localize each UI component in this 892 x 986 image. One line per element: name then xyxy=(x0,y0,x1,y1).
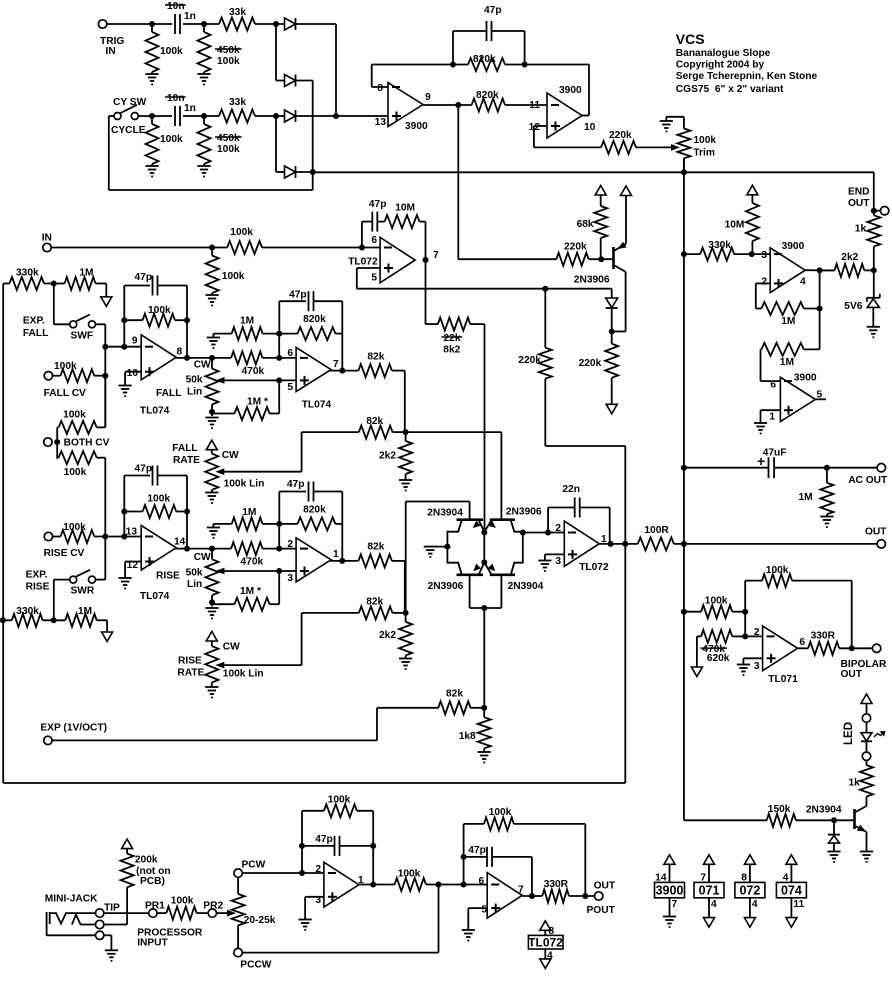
svg-text:RATE: RATE xyxy=(173,455,200,466)
svg-text:TL074: TL074 xyxy=(140,405,170,416)
svg-text:074: 074 xyxy=(781,883,802,897)
svg-text:470k: 470k xyxy=(241,557,264,568)
svg-text:100k: 100k xyxy=(693,135,716,146)
svg-text:3: 3 xyxy=(761,250,767,261)
svg-text:OUT: OUT xyxy=(865,527,887,538)
svg-text:6: 6 xyxy=(371,235,377,246)
svg-text:MINI-JACK: MINI-JACK xyxy=(45,894,98,905)
svg-text:EXP.: EXP. xyxy=(26,569,48,580)
svg-text:2N3906: 2N3906 xyxy=(506,507,542,518)
svg-text:5: 5 xyxy=(287,382,293,393)
svg-text:PCW: PCW xyxy=(242,860,266,871)
svg-text:FALL CV: FALL CV xyxy=(44,388,86,399)
svg-text:450k: 450k xyxy=(217,133,240,144)
svg-text:9: 9 xyxy=(132,336,138,347)
svg-text:10n: 10n xyxy=(167,1,185,12)
svg-text:1M: 1M xyxy=(781,316,795,327)
svg-text:1M: 1M xyxy=(780,357,794,368)
svg-text:RATE: RATE xyxy=(177,668,204,679)
svg-text:33k: 33k xyxy=(229,97,246,108)
svg-text:150k: 150k xyxy=(768,804,791,815)
svg-text:1M: 1M xyxy=(798,492,812,503)
svg-text:14: 14 xyxy=(655,872,667,883)
svg-text:100k: 100k xyxy=(54,361,77,372)
svg-text:8: 8 xyxy=(549,926,555,937)
svg-text:220k: 220k xyxy=(579,358,602,369)
svg-text:PCB): PCB) xyxy=(140,876,165,887)
svg-text:82k: 82k xyxy=(366,416,383,427)
svg-text:220k: 220k xyxy=(518,355,541,366)
svg-text:7: 7 xyxy=(672,899,678,910)
svg-text:330k: 330k xyxy=(16,267,39,278)
svg-text:CW: CW xyxy=(194,360,211,371)
svg-text:100k: 100k xyxy=(63,522,86,533)
svg-text:FALL: FALL xyxy=(156,388,181,399)
svg-text:1M: 1M xyxy=(78,606,92,617)
svg-text:CW: CW xyxy=(222,450,239,461)
svg-text:47p: 47p xyxy=(315,834,333,845)
svg-text:TL071: TL071 xyxy=(768,674,798,685)
svg-text:4: 4 xyxy=(783,872,789,883)
svg-text:CW: CW xyxy=(194,552,211,563)
svg-text:TL074: TL074 xyxy=(302,400,332,411)
svg-text:3: 3 xyxy=(555,556,561,567)
svg-text:100k: 100k xyxy=(63,409,86,420)
svg-text:100k Lin: 100k Lin xyxy=(223,668,264,679)
svg-text:1: 1 xyxy=(333,549,339,560)
svg-text:10: 10 xyxy=(584,122,596,133)
svg-text:SWF: SWF xyxy=(71,331,94,342)
svg-text:100k: 100k xyxy=(64,467,87,478)
svg-text:6: 6 xyxy=(479,876,485,887)
svg-text:3900: 3900 xyxy=(405,121,428,132)
svg-text:POUT: POUT xyxy=(587,905,616,916)
svg-text:2: 2 xyxy=(761,277,767,288)
svg-text:14: 14 xyxy=(174,537,186,548)
svg-text:5: 5 xyxy=(481,905,487,916)
svg-text:2N3906: 2N3906 xyxy=(428,581,464,592)
svg-text:100k: 100k xyxy=(398,869,421,880)
svg-text:3900: 3900 xyxy=(782,241,805,252)
svg-text:2k2: 2k2 xyxy=(379,630,396,641)
svg-text:6: 6 xyxy=(799,637,805,648)
svg-text:EXP (1V/OCT): EXP (1V/OCT) xyxy=(40,722,107,733)
svg-text:5: 5 xyxy=(371,273,377,284)
svg-text:RISE: RISE xyxy=(26,582,50,593)
svg-text:10: 10 xyxy=(127,368,139,379)
svg-text:IN: IN xyxy=(106,46,116,57)
svg-text:8: 8 xyxy=(741,872,747,883)
svg-text:CY SW: CY SW xyxy=(113,97,147,108)
svg-text:2: 2 xyxy=(287,539,293,550)
svg-text:INPUT: INPUT xyxy=(137,938,168,949)
svg-text:22n: 22n xyxy=(562,484,580,495)
svg-text:47p: 47p xyxy=(135,272,153,283)
svg-text:10M: 10M xyxy=(395,203,415,214)
svg-text:100k: 100k xyxy=(222,271,245,282)
svg-text:TIP: TIP xyxy=(104,902,120,913)
svg-text:RISE CV: RISE CV xyxy=(44,548,85,559)
svg-text:2N3904: 2N3904 xyxy=(508,581,544,592)
svg-text:FALL: FALL xyxy=(172,443,197,454)
svg-text:FALL: FALL xyxy=(23,328,48,339)
svg-text:1M: 1M xyxy=(240,316,254,327)
svg-text:1M *: 1M * xyxy=(247,396,268,407)
svg-text:330R: 330R xyxy=(811,630,836,641)
svg-text:450k: 450k xyxy=(217,45,240,56)
svg-text:LED: LED xyxy=(843,722,855,745)
svg-text:68k: 68k xyxy=(577,219,594,230)
svg-text:Copyright 2004 by: Copyright 2004 by xyxy=(676,60,765,71)
svg-text:50k: 50k xyxy=(186,568,203,579)
svg-text:END: END xyxy=(848,187,870,198)
svg-text:6: 6 xyxy=(287,348,293,359)
svg-text:072: 072 xyxy=(739,883,760,897)
svg-text:47p: 47p xyxy=(484,5,502,16)
svg-text:1k: 1k xyxy=(855,224,867,235)
svg-text:3: 3 xyxy=(287,573,293,584)
svg-text:47p: 47p xyxy=(289,290,307,301)
svg-text:100k: 100k xyxy=(160,46,183,57)
svg-text:3: 3 xyxy=(754,661,760,672)
svg-text:1n: 1n xyxy=(184,11,196,22)
svg-text:100k: 100k xyxy=(705,596,728,607)
svg-text:330R: 330R xyxy=(544,879,569,890)
svg-text:CGS75 6" x 2" variant: CGS75 6" x 2" variant xyxy=(676,84,784,95)
svg-text:47p: 47p xyxy=(135,464,153,475)
svg-text:TL072: TL072 xyxy=(528,935,563,949)
svg-text:7: 7 xyxy=(333,359,339,370)
svg-text:IN: IN xyxy=(42,232,52,243)
svg-text:Serge Tcherepnin, Ken Stone: Serge Tcherepnin, Ken Stone xyxy=(676,71,818,82)
svg-text:200k: 200k xyxy=(135,855,158,866)
svg-text:11: 11 xyxy=(529,100,540,111)
svg-text:VCS: VCS xyxy=(676,31,705,47)
svg-text:TL072: TL072 xyxy=(348,256,378,267)
svg-text:100k: 100k xyxy=(147,493,170,504)
svg-text:100k: 100k xyxy=(160,134,183,145)
svg-text:1n: 1n xyxy=(184,103,196,114)
svg-text:Lin: Lin xyxy=(187,387,202,398)
svg-text:620k: 620k xyxy=(707,653,730,664)
svg-text:11: 11 xyxy=(793,899,804,910)
svg-text:CW: CW xyxy=(223,641,240,652)
svg-text:33k: 33k xyxy=(229,7,246,18)
svg-text:RISE: RISE xyxy=(178,655,202,666)
svg-text:3900: 3900 xyxy=(656,883,684,897)
svg-text:470k: 470k xyxy=(242,366,265,377)
svg-text:82k: 82k xyxy=(366,597,383,608)
svg-text:47uF: 47uF xyxy=(763,448,787,459)
svg-text:100k: 100k xyxy=(766,565,789,576)
svg-text:2N3906: 2N3906 xyxy=(574,275,610,286)
svg-text:50k: 50k xyxy=(186,375,203,386)
svg-text:PR1: PR1 xyxy=(145,901,165,912)
svg-text:5V6: 5V6 xyxy=(844,301,862,312)
svg-text:220k: 220k xyxy=(609,130,632,141)
svg-text:TL072: TL072 xyxy=(579,562,609,573)
svg-text:7: 7 xyxy=(518,885,524,896)
svg-text:2k2: 2k2 xyxy=(841,252,858,263)
svg-text:13: 13 xyxy=(375,117,387,128)
svg-text:6: 6 xyxy=(770,380,776,391)
svg-text:10M: 10M xyxy=(725,220,745,231)
svg-text:820k: 820k xyxy=(473,54,496,65)
svg-text:4: 4 xyxy=(752,899,758,910)
svg-text:22k: 22k xyxy=(444,333,461,344)
svg-text:1k: 1k xyxy=(849,777,861,788)
svg-text:2N3904: 2N3904 xyxy=(427,507,463,518)
svg-text:BOTH CV: BOTH CV xyxy=(64,437,110,448)
svg-text:100k: 100k xyxy=(148,305,171,316)
svg-text:10n: 10n xyxy=(167,93,185,104)
svg-text:82k: 82k xyxy=(367,542,384,553)
svg-text:2N3904: 2N3904 xyxy=(806,805,842,816)
svg-text:SWR: SWR xyxy=(71,586,95,597)
svg-text:47p: 47p xyxy=(287,479,305,490)
svg-text:8: 8 xyxy=(377,83,383,94)
svg-text:Lin: Lin xyxy=(187,579,202,590)
svg-text:100R: 100R xyxy=(644,525,669,536)
svg-text:PR2: PR2 xyxy=(203,901,223,912)
svg-text:4: 4 xyxy=(711,899,717,910)
svg-text:Bananalogue Slope: Bananalogue Slope xyxy=(676,48,771,59)
svg-text:EXP.: EXP. xyxy=(23,316,45,327)
svg-text:071: 071 xyxy=(699,883,720,897)
svg-text:1M *: 1M * xyxy=(240,586,261,597)
svg-text:820k: 820k xyxy=(476,90,499,101)
svg-text:7: 7 xyxy=(433,250,439,261)
svg-text:CYCLE: CYCLE xyxy=(111,125,146,136)
svg-text:OUT: OUT xyxy=(594,880,616,891)
svg-text:820k: 820k xyxy=(303,505,326,516)
svg-text:+: + xyxy=(757,453,765,469)
svg-text:100k: 100k xyxy=(217,56,240,67)
svg-text:100k: 100k xyxy=(230,227,253,238)
svg-text:8k2: 8k2 xyxy=(443,344,460,355)
svg-text:13: 13 xyxy=(126,527,138,538)
svg-text:TL074: TL074 xyxy=(140,591,170,602)
svg-text:82k: 82k xyxy=(367,351,384,362)
svg-text:PCCW: PCCW xyxy=(240,960,272,971)
svg-text:RISE: RISE xyxy=(156,571,180,582)
svg-text:100k: 100k xyxy=(171,895,194,906)
svg-text:47p: 47p xyxy=(468,845,486,856)
svg-text:100k Lin: 100k Lin xyxy=(224,479,265,490)
svg-text:47p: 47p xyxy=(369,199,387,210)
svg-text:AC OUT: AC OUT xyxy=(848,475,888,486)
svg-text:2: 2 xyxy=(754,627,760,638)
svg-text:20-25k: 20-25k xyxy=(244,915,276,926)
svg-text:330k: 330k xyxy=(708,240,731,251)
svg-text:OUT: OUT xyxy=(848,198,870,209)
svg-text:OUT: OUT xyxy=(841,669,863,680)
svg-text:82k: 82k xyxy=(446,689,463,700)
svg-text:3900: 3900 xyxy=(559,85,582,96)
svg-text:1k8: 1k8 xyxy=(459,731,476,742)
svg-text:1M: 1M xyxy=(79,267,93,278)
svg-text:100k: 100k xyxy=(489,807,512,818)
svg-text:8: 8 xyxy=(177,347,183,358)
svg-text:7: 7 xyxy=(700,872,706,883)
svg-text:4: 4 xyxy=(800,277,806,288)
svg-text:330k: 330k xyxy=(16,606,39,617)
svg-text:2k2: 2k2 xyxy=(379,451,396,462)
svg-text:1: 1 xyxy=(601,534,607,545)
svg-text:1: 1 xyxy=(769,412,775,423)
svg-text:220k: 220k xyxy=(564,242,587,253)
svg-text:820k: 820k xyxy=(303,314,326,325)
svg-text:100k: 100k xyxy=(328,795,351,806)
svg-text:1M: 1M xyxy=(242,507,256,518)
svg-text:Trim: Trim xyxy=(693,148,715,159)
svg-text:9: 9 xyxy=(425,92,431,103)
svg-text:3900: 3900 xyxy=(794,373,817,384)
svg-text:100k: 100k xyxy=(217,144,240,155)
